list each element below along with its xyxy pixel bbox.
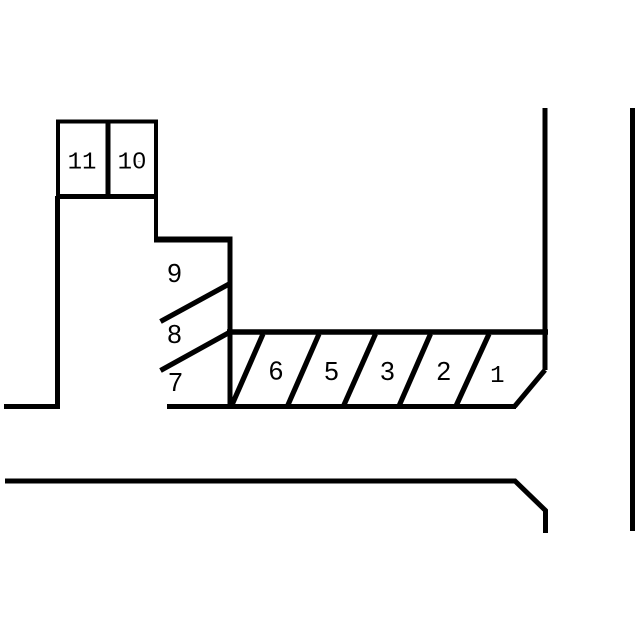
stall box right edge going down to step <box>154 120 158 243</box>
svg-text:6: 6 <box>269 355 283 385</box>
parking strip bottom edge <box>167 404 516 409</box>
hatch stripe between 5 and 3 <box>344 334 376 406</box>
hatch stripe between 2 and 1 <box>456 334 489 406</box>
hatch stripe between 6 and 5 <box>288 334 320 406</box>
outer right road edge vertical <box>630 108 635 531</box>
svg-text:5: 5 <box>324 356 338 386</box>
svg-text:9: 9 <box>167 258 181 288</box>
white patch to remove mono zero center dot <box>137 157 142 162</box>
hatch stripe left of space 6 <box>232 334 264 406</box>
svg-text:11: 11 <box>68 149 97 176</box>
left boundary wall vertical <box>55 196 60 409</box>
lower road polyline <box>5 481 546 533</box>
bottom left curb horizontal <box>4 404 60 409</box>
inner right vertical wall <box>543 108 548 370</box>
stall divider between 11 and 10 <box>106 120 111 200</box>
svg-text:2: 2 <box>436 356 450 386</box>
bevel corner of strip <box>515 370 546 407</box>
step horizontal wall <box>154 237 233 243</box>
svg-text:7: 7 <box>168 367 182 397</box>
svg-text:1: 1 <box>490 363 504 390</box>
parking strip top edge <box>227 329 548 335</box>
stall box top edge <box>56 120 158 124</box>
divider line between 9 and 8 <box>161 284 231 322</box>
divider line between 8 and 7 <box>161 332 232 371</box>
svg-text:8: 8 <box>167 319 181 349</box>
stall box bottom edge <box>56 194 158 199</box>
hatch stripe between 3 and 2 <box>399 334 431 406</box>
svg-text:3: 3 <box>380 356 394 386</box>
middle vertical wall <box>228 237 233 409</box>
stall box left edge <box>56 120 60 200</box>
svg-text:10: 10 <box>118 149 147 176</box>
